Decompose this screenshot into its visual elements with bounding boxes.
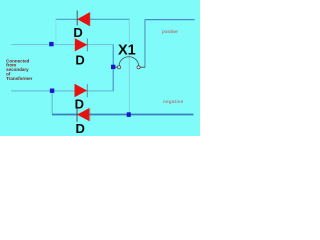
wire vertical center crossover x=129: [128, 19, 130, 114]
diode D2 (points right): [75, 38, 88, 51]
wire vertical to X1 left terminal x=113: [112, 45, 114, 91]
svg-text:D: D: [75, 53, 84, 68]
node S2 junction square on W3: [50, 89, 54, 93]
negative bottom rail: [52, 114, 193, 116]
svg-text:D: D: [75, 96, 84, 111]
svg-text:positive: positive: [162, 29, 178, 34]
connector X1 (jumper arc with terminals): [115, 57, 145, 69]
wire W3 lower-left horizontal: [11, 90, 114, 92]
node S1 junction square on W2: [49, 42, 53, 46]
wire vertical left drop x=56: [55, 19, 57, 44]
svg-text:Transformer: Transformer: [6, 76, 33, 81]
diode D1 (points left): [77, 11, 90, 27]
wire W2 mid-left horizontal: [11, 44, 113, 46]
svg-text:D: D: [73, 25, 82, 40]
diode D3 (points right): [75, 84, 88, 97]
positive rail: [145, 19, 195, 21]
svg-text:X1: X1: [118, 42, 136, 58]
svg-text:D: D: [76, 121, 85, 136]
wire vertical from S2 down x=52: [51, 91, 53, 115]
note text: Connected from secondary of Transformer: [6, 58, 33, 81]
wire top horizontal (anode rail of D1): [56, 18, 130, 20]
node S3 junction square at X1 left terminal: [111, 65, 115, 69]
diode D4 (points left): [77, 108, 90, 122]
wire vertical right to positive x=145: [144, 20, 146, 68]
node S4 junction square on negative rail: [127, 112, 131, 117]
label X1: [117, 42, 138, 58]
svg-text:negative: negative: [163, 99, 184, 104]
